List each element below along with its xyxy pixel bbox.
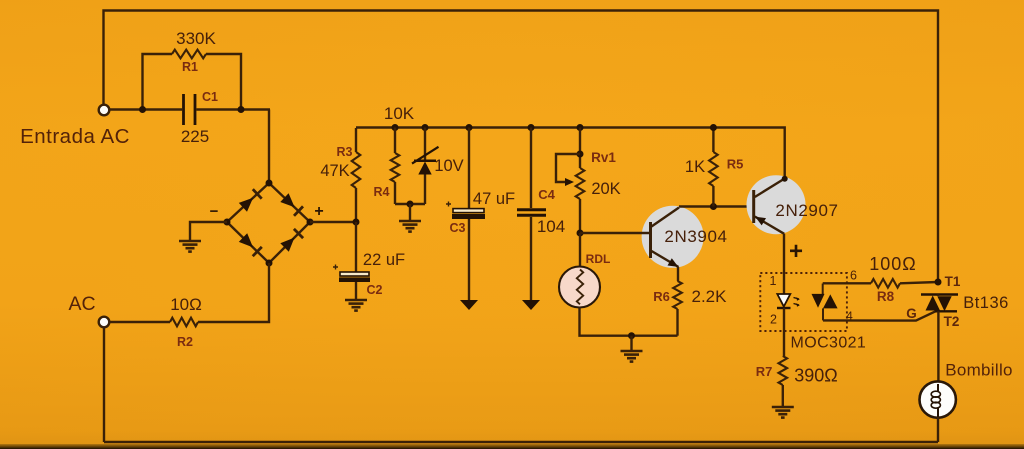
wire: R5 leads [712,128,714,207]
svg-text:104: 104 [537,217,565,236]
Q1 emitter [652,251,679,267]
node: R5 bottom junction [710,203,717,210]
pin 2 label [770,313,777,327]
node: C1 right junction [238,106,245,113]
node: C4 rail junction [528,124,535,131]
label: 10&#937; [170,295,202,314]
resistor R1 [172,50,206,59]
node: R3 bottom junction [353,219,360,226]
label: C2 [367,283,383,297]
photoresistor RDL [559,267,600,308]
wire: LED cathode lead [783,308,785,356]
ground (C4 arrow) [522,300,540,310]
ground (bridge left) [179,241,201,252]
transistor Q1 2N3904 body [642,206,704,268]
label: minus [210,203,219,220]
svg-text:MOC3021: MOC3021 [791,335,867,352]
svg-text:R4: R4 [374,185,390,199]
label: R6 [653,289,670,304]
wire: R1 branch [143,54,242,110]
svg-text:2.2K: 2.2K [692,287,728,306]
ground (C3 arrow) [460,300,478,310]
label: 47 uF [473,190,515,208]
svg-text:225: 225 [181,127,209,146]
svg-text:R6: R6 [653,289,670,304]
svg-text:RDL: RDL [586,252,611,266]
node: zener rail junction [422,124,429,131]
label: R7 [756,364,773,379]
svg-text:47 uF: 47 uF [473,190,515,208]
wire: pin4 to gate [823,311,936,320]
wire: C3 bottom lead [468,219,470,300]
triac Bt136 symbol [921,295,958,312]
resistor R3 [352,152,361,188]
label: R5 [727,157,744,172]
diode D3 (left->bottom) [239,233,262,256]
wire: LED anode lead [783,273,785,294]
RDL zigzag [577,270,583,305]
label: Bt136 [963,294,1009,312]
resistor R5 [709,152,718,186]
diode D1 (left->top) [239,189,262,212]
svg-text:2N2907: 2N2907 [775,201,838,220]
label: 330K [176,29,216,48]
pin 4 label [846,309,853,323]
node: R5 rail junction [710,124,717,131]
wire: C4 top lead [530,128,532,209]
wire: node to C2 [355,222,357,272]
svg-text:20K: 20K [591,180,620,198]
svg-text:C4: C4 [538,187,555,202]
label: T2 [944,314,960,329]
Q1 emitter arrow [668,258,679,267]
wire: C3 top lead [468,128,470,210]
Q2 collector [755,179,785,198]
label: 2N3904 [664,227,727,246]
wire: to bridge top [268,110,270,184]
svg-text:2N3904: 2N3904 [664,227,727,246]
ground (RDL/R6) [621,351,643,362]
svg-text:G: G [906,306,917,321]
label: 10K [384,104,415,123]
label: 20K [591,180,620,198]
wire: R2 to bridge bottom [198,263,269,322]
label: 390&#937; [794,366,838,386]
wire: R4/zener bottom link [395,203,425,205]
svg-text:1K: 1K [685,158,705,176]
wire: Rv1 wiper [556,154,580,182]
opto light arrows [794,297,800,306]
svg-text:Bt136: Bt136 [963,294,1009,312]
wire: Q1 emitter to R6 [677,267,679,281]
wire: Rv1 bottom lead [579,199,581,233]
label: R4 [374,185,390,199]
svg-text:+: + [314,203,323,220]
label: 225 [181,127,209,146]
capacitor C4 [517,210,546,216]
node: RDL/R6 ground junction [628,332,635,339]
wire: AC to R2 [109,321,170,323]
Q1 collector [652,208,680,227]
svg-text:C2: C2 [367,283,383,297]
svg-text:R3: R3 [337,145,353,159]
opto LED [777,294,791,308]
label: 104 [537,217,565,236]
node: Rv1 rail junction [577,124,584,131]
node: bridge left [224,219,231,226]
node: C3 rail junction [466,124,473,131]
wire: bottom rail [104,441,938,443]
svg-text:R2: R2 [177,335,193,349]
svg-text:22 uF: 22 uF [363,251,405,269]
node: Rv1 wiper tap [577,151,584,158]
svg-text:AC: AC [68,293,95,315]
svg-text:C3: C3 [450,221,466,235]
wire: zener leads [424,128,426,205]
wire: +V rail [356,128,785,180]
svg-text:Rv1: Rv1 [591,150,616,165]
diode D4 (bottom->right) [280,229,303,252]
label: 22 uF [363,251,405,269]
wire: R6 bottom lead [676,309,678,336]
label: 1K [685,158,705,176]
svg-text:6: 6 [850,269,857,283]
Q2 base bar [752,190,755,223]
transistor Q2 2N2907 body [747,175,806,234]
node: bridge right [307,219,314,226]
label: C3 [450,221,466,235]
svg-text:2: 2 [770,313,777,327]
Q2 emitter arrow (PNP) [755,217,766,226]
node: bridge bottom [266,260,273,267]
label: Entrada AC [20,125,130,148]
node: bridge top [266,180,273,187]
capacitor C2 [333,265,370,283]
pin 1 label [770,274,777,288]
svg-text:390Ω: 390Ω [794,366,838,386]
node: Q2 collector bend [782,176,788,182]
node: R4 rail junction [392,124,399,131]
wire: C2 to ground [355,282,357,299]
wire: R3 leads [355,128,357,222]
lamp Bombillo body [920,381,956,417]
label: C1 [202,90,218,104]
resistor R7 [779,356,788,385]
wire: pin6 to R8 [823,282,871,284]
label: T1 [945,274,961,289]
resistor R8 [871,279,900,288]
svg-text:10V: 10V [434,157,463,175]
Q2 emitter [755,217,784,234]
label: plus (opto) [789,238,803,265]
wiper arrow [565,178,574,186]
label: 47K [320,162,349,180]
svg-text:−: − [210,203,219,220]
label: R3 [337,145,353,159]
diode D2 (top->right) [280,193,303,216]
label: MOC3021 [791,335,867,352]
svg-text:10K: 10K [384,104,415,123]
node: T1 junction [935,279,942,286]
wire: input node wire [109,108,270,110]
optocoupler U1 MOC3021 box [760,273,847,331]
ground (R7) [772,407,794,418]
svg-text:Entrada AC: Entrada AC [20,125,130,148]
wire: RDL top lead [579,233,581,266]
label: C4 [538,187,555,202]
wire: RDL bottom lead [580,308,678,336]
svg-text:R1: R1 [182,60,198,74]
svg-text:100Ω: 100Ω [869,254,917,274]
wire: Q2 emitter down [783,234,785,273]
pin 6 label [850,269,857,283]
Q1 base bar [649,222,652,258]
label: Bombillo [945,361,1013,380]
wire: R8 to T1 [900,282,938,283]
lamp filament [931,384,940,417]
ground (C2) [345,300,367,311]
wire: bridge diamond [227,183,310,263]
svg-text:R5: R5 [727,157,744,172]
wire: bridge left to ground [190,222,227,240]
svg-text:330K: 330K [176,29,216,48]
node: R4 bottom junction [407,201,414,208]
resistor R2 [170,318,198,327]
opto triac [812,284,838,321]
wire: outer AC loop (top/left/right) [104,11,939,282]
resistor R4 [391,153,400,182]
svg-text:47K: 47K [320,162,349,180]
svg-text:T2: T2 [944,314,960,329]
svg-text:C1: C1 [202,90,218,104]
wire: zener node to ground [409,204,411,220]
wire: triac vertical [937,295,940,383]
zener diode DZ 10V [412,147,439,175]
svg-text:1: 1 [770,274,777,288]
node: R1 left junction [139,106,146,113]
wire: Q1 base wire [580,232,651,234]
ground (R4/zener) [399,221,421,232]
wire: C4 bottom lead [530,217,532,300]
wire: Rv1 top lead [579,128,581,169]
label: R8 [877,289,895,304]
label: R2 [177,335,193,349]
label: 100&#937; [869,254,917,274]
resistor R6 [673,281,682,309]
label: RDL [586,252,611,266]
wire: Q1 collector to Q2 base [679,205,754,207]
label: 10V [434,157,463,175]
label: 2N2907 [775,201,838,220]
svg-text:R7: R7 [756,364,773,379]
label: 2.2K [692,287,728,306]
svg-text:R8: R8 [877,289,895,304]
label: R1 [182,60,198,74]
capacitor C3 [446,202,485,220]
svg-text:+: + [789,238,803,265]
wire: AC terminal to bottom rail [103,327,105,442]
node: base node junction [577,230,584,237]
wire: R7 bottom lead [782,385,784,406]
svg-text:10Ω: 10Ω [170,295,202,314]
wire: bridge + to R3 node [310,221,356,223]
resistor Rv1 20K [576,168,585,199]
node: AC terminal [99,317,110,328]
wire: R4 leads [394,128,396,205]
svg-text:Bombillo: Bombillo [945,361,1013,380]
node: Entrada AC terminal [99,105,110,116]
svg-text:T1: T1 [945,274,961,289]
capacitor C1 [184,94,196,125]
label: Rv1 [591,150,616,165]
label: plus [314,203,323,220]
label: G [906,306,917,321]
label: AC [68,293,95,315]
wire: lamp to bottom rail [937,417,939,442]
wire: ground stem [630,336,632,350]
